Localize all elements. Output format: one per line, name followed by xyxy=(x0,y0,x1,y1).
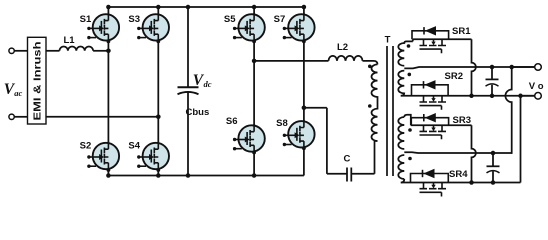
svg-text:S8: S8 xyxy=(276,118,288,129)
svg-text:S2: S2 xyxy=(80,141,92,152)
svg-text:C: C xyxy=(344,154,351,165)
svg-text:L2: L2 xyxy=(337,42,348,53)
svg-text:SR3: SR3 xyxy=(453,115,471,126)
svg-text:dc: dc xyxy=(204,79,212,89)
svg-text:T: T xyxy=(385,34,391,45)
svg-text:S6: S6 xyxy=(226,116,238,127)
svg-text:ac: ac xyxy=(14,88,22,98)
svg-text:S7: S7 xyxy=(274,14,286,25)
svg-text:SR1: SR1 xyxy=(452,26,471,37)
svg-text:S1: S1 xyxy=(80,14,92,25)
svg-text:SR2: SR2 xyxy=(445,71,463,82)
svg-text:V: V xyxy=(529,81,536,92)
svg-text:L1: L1 xyxy=(64,35,76,46)
svg-text:S5: S5 xyxy=(224,14,236,25)
svg-text:SR4: SR4 xyxy=(449,169,468,180)
svg-text:EMI & Inrush: EMI & Inrush xyxy=(32,42,43,121)
svg-text:S3: S3 xyxy=(128,14,140,25)
svg-text:Cbus: Cbus xyxy=(186,107,210,118)
svg-text:S4: S4 xyxy=(128,141,140,152)
svg-text:o: o xyxy=(538,81,544,92)
